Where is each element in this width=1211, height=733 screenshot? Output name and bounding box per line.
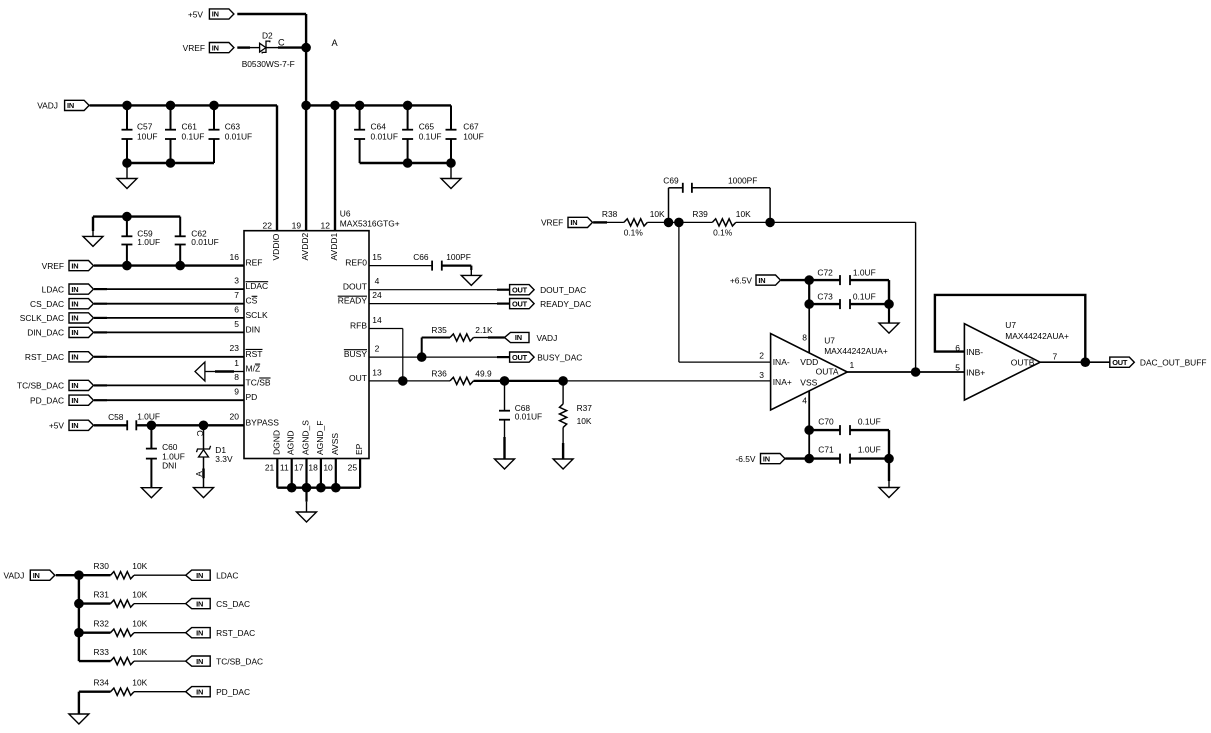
svg-text:IN: IN xyxy=(71,299,78,308)
svg-text:R35: R35 xyxy=(431,325,447,335)
svg-text:PD: PD xyxy=(246,392,258,402)
svg-text:10: 10 xyxy=(323,463,333,473)
svg-text:OUT: OUT xyxy=(512,353,528,362)
svg-text:REF: REF xyxy=(246,258,263,268)
svg-text:19: 19 xyxy=(292,221,302,231)
svg-text:VDDIO: VDDIO xyxy=(271,233,281,260)
svg-text:0.1UF: 0.1UF xyxy=(853,292,876,302)
svg-text:IN: IN xyxy=(763,454,770,463)
svg-text:R30: R30 xyxy=(94,561,110,571)
svg-text:AVDD2: AVDD2 xyxy=(300,233,310,261)
svg-text:3: 3 xyxy=(234,276,239,286)
svg-text:VREF: VREF xyxy=(541,218,563,228)
svg-text:0.01UF: 0.01UF xyxy=(225,132,252,142)
svg-text:EP: EP xyxy=(354,443,364,455)
svg-text:INA-: INA- xyxy=(773,357,790,367)
svg-text:3.3V: 3.3V xyxy=(215,454,233,464)
svg-text:8: 8 xyxy=(802,332,807,342)
svg-text:49.9: 49.9 xyxy=(475,368,492,378)
svg-text:0.1UF: 0.1UF xyxy=(419,132,442,142)
svg-text:DGND: DGND xyxy=(271,430,281,455)
svg-text:IN: IN xyxy=(196,687,203,696)
svg-text:INA+: INA+ xyxy=(773,377,792,387)
svg-text:0.1UF: 0.1UF xyxy=(858,416,881,426)
svg-text:REF0: REF0 xyxy=(345,258,367,268)
svg-text:SCLK_DAC: SCLK_DAC xyxy=(20,313,64,323)
svg-text:+5V: +5V xyxy=(49,421,65,431)
svg-text:OUTA: OUTA xyxy=(816,367,839,377)
svg-text:VREF: VREF xyxy=(183,43,205,53)
svg-text:U6: U6 xyxy=(340,209,351,219)
svg-text:C72: C72 xyxy=(817,268,833,278)
svg-text:PD_DAC: PD_DAC xyxy=(30,396,64,406)
svg-text:23: 23 xyxy=(230,343,240,353)
svg-text:16: 16 xyxy=(230,252,240,262)
svg-text:C65: C65 xyxy=(419,121,435,131)
svg-text:DNI: DNI xyxy=(162,461,176,471)
svg-text:4: 4 xyxy=(375,276,380,286)
svg-text:C73: C73 xyxy=(817,292,833,302)
svg-text:IN: IN xyxy=(758,276,765,285)
svg-text:D2: D2 xyxy=(262,31,273,41)
svg-text:+6.5V: +6.5V xyxy=(730,275,753,285)
svg-text:IN: IN xyxy=(33,571,40,580)
svg-text:17: 17 xyxy=(294,463,304,473)
svg-text:TC/SB: TC/SB xyxy=(246,377,271,387)
svg-text:M/Z: M/Z xyxy=(246,364,261,374)
svg-text:LDAC: LDAC xyxy=(42,284,64,294)
svg-text:IN: IN xyxy=(71,314,78,323)
svg-text:0.01UF: 0.01UF xyxy=(515,412,542,422)
svg-text:20: 20 xyxy=(230,412,240,422)
svg-text:OUT: OUT xyxy=(512,299,528,308)
svg-text:R36: R36 xyxy=(431,368,447,378)
svg-text:IN: IN xyxy=(71,285,78,294)
svg-text:PD_DAC: PD_DAC xyxy=(216,687,250,697)
svg-text:IN: IN xyxy=(67,101,74,110)
svg-text:15: 15 xyxy=(372,252,382,262)
svg-text:OUT: OUT xyxy=(512,285,528,294)
svg-text:10K: 10K xyxy=(132,619,147,629)
svg-text:DIN_DAC: DIN_DAC xyxy=(27,328,64,338)
svg-text:R39: R39 xyxy=(692,209,708,219)
svg-text:-6.5V: -6.5V xyxy=(735,454,755,464)
svg-text:BUSY: BUSY xyxy=(344,349,367,359)
svg-text:MAX44242AUA+: MAX44242AUA+ xyxy=(824,346,888,356)
svg-text:10K: 10K xyxy=(577,416,592,426)
svg-text:IN: IN xyxy=(515,333,522,342)
svg-text:1.0UF: 1.0UF xyxy=(137,237,160,247)
svg-text:6: 6 xyxy=(955,343,960,353)
svg-text:OUT: OUT xyxy=(349,373,367,383)
svg-text:0.01UF: 0.01UF xyxy=(371,132,398,142)
svg-text:1.0UF: 1.0UF xyxy=(137,412,160,422)
svg-text:A: A xyxy=(332,38,339,48)
svg-text:7: 7 xyxy=(1053,352,1058,362)
svg-text:3: 3 xyxy=(759,370,764,380)
svg-text:C58: C58 xyxy=(108,412,124,422)
svg-text:IN: IN xyxy=(196,657,203,666)
svg-text:10K: 10K xyxy=(132,678,147,688)
svg-text:IN: IN xyxy=(196,628,203,637)
svg-text:VDD: VDD xyxy=(800,357,818,367)
svg-text:IN: IN xyxy=(71,381,78,390)
svg-text:C57: C57 xyxy=(137,121,153,131)
svg-text:MAX44242AUA+: MAX44242AUA+ xyxy=(1005,331,1069,341)
svg-text:R34: R34 xyxy=(94,678,110,688)
svg-text:13: 13 xyxy=(372,367,382,377)
svg-text:0.1%: 0.1% xyxy=(624,227,644,237)
svg-text:C71: C71 xyxy=(818,445,834,455)
svg-text:2: 2 xyxy=(759,350,764,360)
svg-text:C: C xyxy=(195,430,205,436)
svg-text:LDAC: LDAC xyxy=(246,281,269,291)
svg-text:1: 1 xyxy=(850,360,855,370)
svg-text:18: 18 xyxy=(308,463,318,473)
svg-text:1: 1 xyxy=(234,358,239,368)
svg-text:10K: 10K xyxy=(736,209,751,219)
svg-text:R37: R37 xyxy=(577,403,593,413)
svg-text:AGND_S: AGND_S xyxy=(301,420,311,455)
svg-text:0.1UF: 0.1UF xyxy=(182,132,205,142)
svg-text:100PF: 100PF xyxy=(446,252,471,262)
svg-text:R33: R33 xyxy=(94,647,110,657)
svg-text:RST_DAC: RST_DAC xyxy=(216,628,255,638)
svg-text:DOUT_DAC: DOUT_DAC xyxy=(540,285,586,295)
svg-text:CS: CS xyxy=(246,296,258,306)
svg-text:C70: C70 xyxy=(818,416,834,426)
svg-text:C63: C63 xyxy=(225,121,241,131)
svg-text:DOUT: DOUT xyxy=(343,282,367,292)
svg-text:C61: C61 xyxy=(182,121,198,131)
svg-text:TC/SB_DAC: TC/SB_DAC xyxy=(17,381,64,391)
svg-text:INB-: INB- xyxy=(966,347,983,357)
svg-text:OUT: OUT xyxy=(1112,358,1128,367)
svg-text:C69: C69 xyxy=(663,176,679,186)
svg-text:8: 8 xyxy=(234,372,239,382)
svg-text:AVDD1: AVDD1 xyxy=(329,233,339,261)
svg-text:VSS: VSS xyxy=(800,377,817,387)
svg-text:21: 21 xyxy=(265,463,275,473)
svg-text:5: 5 xyxy=(234,319,239,329)
svg-text:IN: IN xyxy=(71,421,78,430)
svg-text:RFB: RFB xyxy=(350,321,367,331)
svg-text:DIN: DIN xyxy=(246,324,261,334)
svg-text:TC/SB_DAC: TC/SB_DAC xyxy=(216,656,263,666)
svg-text:10K: 10K xyxy=(132,647,147,657)
svg-text:IN: IN xyxy=(71,328,78,337)
svg-text:C67: C67 xyxy=(463,121,479,131)
svg-text:IN: IN xyxy=(196,571,203,580)
svg-text:BYPASS: BYPASS xyxy=(246,417,280,427)
svg-text:7: 7 xyxy=(234,290,239,300)
svg-text:10K: 10K xyxy=(132,561,147,571)
svg-text:10UF: 10UF xyxy=(463,132,483,142)
svg-text:LDAC: LDAC xyxy=(216,571,238,581)
svg-text:14: 14 xyxy=(372,315,382,325)
svg-text:R38: R38 xyxy=(602,209,618,219)
svg-text:AVSS: AVSS xyxy=(330,433,340,455)
svg-text:RST: RST xyxy=(246,349,263,359)
svg-text:DAC_OUT_BUFF: DAC_OUT_BUFF xyxy=(1140,358,1207,368)
svg-text:SCLK: SCLK xyxy=(246,310,269,320)
svg-text:IN: IN xyxy=(71,353,78,362)
svg-text:10K: 10K xyxy=(650,209,665,219)
svg-text:READY_DAC: READY_DAC xyxy=(540,299,591,309)
svg-text:0.1%: 0.1% xyxy=(713,227,733,237)
svg-text:4: 4 xyxy=(802,395,807,405)
svg-text:10K: 10K xyxy=(132,590,147,600)
svg-text:RST_DAC: RST_DAC xyxy=(25,352,64,362)
svg-text:R32: R32 xyxy=(94,619,110,629)
svg-text:1000PF: 1000PF xyxy=(728,176,757,186)
svg-text:IN: IN xyxy=(71,261,78,270)
svg-text:24: 24 xyxy=(372,290,382,300)
svg-text:C66: C66 xyxy=(413,252,429,262)
svg-text:INB+: INB+ xyxy=(966,367,985,377)
svg-text:IN: IN xyxy=(212,43,219,52)
svg-text:10UF: 10UF xyxy=(137,132,157,142)
svg-text:READY: READY xyxy=(338,296,368,306)
svg-text:VADJ: VADJ xyxy=(37,101,58,111)
svg-text:VADJ: VADJ xyxy=(4,571,25,581)
svg-text:R31: R31 xyxy=(94,590,110,600)
svg-text:IN: IN xyxy=(71,396,78,405)
svg-text:U7: U7 xyxy=(824,336,835,346)
svg-text:CS_DAC: CS_DAC xyxy=(216,599,250,609)
svg-text:2.1K: 2.1K xyxy=(475,325,493,335)
svg-text:6: 6 xyxy=(234,304,239,314)
svg-text:VREF: VREF xyxy=(42,261,64,271)
svg-text:12: 12 xyxy=(321,221,331,231)
svg-text:VADJ: VADJ xyxy=(537,333,558,343)
svg-text:MAX5316GTG+: MAX5316GTG+ xyxy=(340,219,400,229)
svg-text:A: A xyxy=(194,471,204,477)
svg-text:IN: IN xyxy=(212,10,219,19)
svg-text:+5V: +5V xyxy=(188,9,204,19)
svg-text:5: 5 xyxy=(955,362,960,372)
svg-text:IN: IN xyxy=(196,599,203,608)
svg-text:C: C xyxy=(278,38,285,48)
svg-text:25: 25 xyxy=(348,463,358,473)
svg-text:IN: IN xyxy=(570,218,577,227)
svg-text:AGND: AGND xyxy=(286,430,296,455)
svg-text:C64: C64 xyxy=(371,121,387,131)
svg-text:2: 2 xyxy=(375,344,380,354)
svg-text:AGND_F: AGND_F xyxy=(315,421,325,455)
svg-text:U7: U7 xyxy=(1005,320,1016,330)
svg-text:11: 11 xyxy=(280,463,289,473)
svg-text:BUSY_DAC: BUSY_DAC xyxy=(537,352,582,362)
svg-text:22: 22 xyxy=(263,221,273,231)
svg-text:1.0UF: 1.0UF xyxy=(858,445,881,455)
svg-text:OUTB: OUTB xyxy=(1011,357,1035,367)
svg-text:0.01UF: 0.01UF xyxy=(191,237,218,247)
svg-text:CS_DAC: CS_DAC xyxy=(30,299,64,309)
svg-text:B0530WS-7-F: B0530WS-7-F xyxy=(242,59,295,69)
svg-text:9: 9 xyxy=(234,387,239,397)
svg-text:1.0UF: 1.0UF xyxy=(853,268,876,278)
